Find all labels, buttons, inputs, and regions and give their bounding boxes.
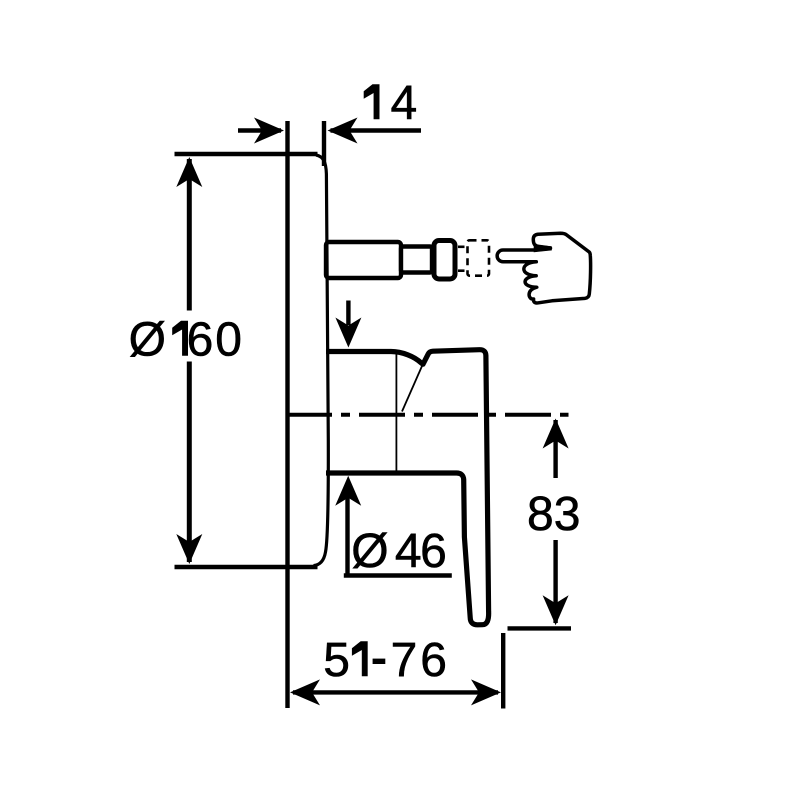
pointing hand notch between knuckle and finger bbox=[534, 244, 552, 252]
knob travel dash lower bbox=[458, 269, 465, 272]
svg-text:Ø: Ø bbox=[129, 314, 166, 367]
arrow above cartridge bbox=[346, 301, 350, 326]
plate front face bbox=[314, 155, 329, 566]
dim 51-76: text hyphen bbox=[373, 659, 386, 664]
dim 14: text digit 1 bbox=[364, 85, 379, 120]
handle parting thin line bbox=[402, 364, 423, 412]
svg-text:6: 6 bbox=[420, 525, 447, 578]
dim 14: right arrowhead bbox=[328, 118, 358, 144]
knob travel dash upper bbox=[458, 246, 465, 249]
diverter pull knob bbox=[434, 241, 455, 280]
dim Ø160: dimension line lower segment bbox=[187, 362, 192, 563]
dim 51-76: right arrowhead bbox=[471, 679, 501, 705]
wall plate rear face / shared extension line bbox=[285, 121, 289, 708]
dim 51-76: text digit 1 bbox=[352, 642, 367, 677]
dim 51-76: right extension line bbox=[501, 633, 505, 709]
dim 14: right extension line bbox=[322, 121, 326, 166]
svg-text:Ø: Ø bbox=[351, 525, 388, 578]
dim Ø160: text digit 1 bbox=[173, 321, 188, 356]
svg-text:4: 4 bbox=[395, 525, 422, 578]
cartridge body and lever handle outline bbox=[326, 350, 489, 625]
dim 51-76: shaft bbox=[293, 690, 498, 694]
centerline dash-dot bbox=[286, 413, 569, 417]
svg-text:5: 5 bbox=[323, 634, 350, 687]
dim 14: right arrow shaft bbox=[331, 128, 422, 132]
knob pulled-out position dashed outline bbox=[468, 240, 490, 275]
plate top edge and Ø160 top extension line bbox=[175, 152, 318, 156]
dim 83: bottom extension line bbox=[508, 626, 572, 630]
svg-text:4: 4 bbox=[391, 77, 418, 130]
dim 83: down arrowhead bbox=[543, 595, 569, 625]
pointing hand icon bbox=[497, 233, 590, 303]
diverter stem wide section bbox=[326, 242, 401, 278]
dim 83: upper shaft bbox=[553, 420, 557, 478]
cartridge front edge thin line bbox=[395, 354, 397, 472]
dim 14: left arrowhead bbox=[254, 118, 284, 144]
dim Ø160: bottom arrowhead bbox=[176, 534, 202, 564]
dim Ø46: underline bbox=[344, 573, 452, 577]
dim 51-76: left arrowhead bbox=[290, 679, 320, 705]
dim 83: up arrowhead bbox=[543, 419, 569, 449]
dim Ø46: up arrowhead bbox=[335, 476, 361, 506]
dim Ø160: top arrowhead bbox=[176, 157, 202, 187]
diverter stem neck bbox=[401, 247, 432, 273]
dim Ø160: dimension line upper segment bbox=[187, 159, 192, 311]
dim 14: left arrow shaft bbox=[238, 128, 281, 132]
svg-text:60: 60 bbox=[187, 314, 244, 367]
dim Ø46: leader vertical line bbox=[345, 490, 349, 576]
dim 83: lower shaft bbox=[553, 540, 557, 623]
svg-text:76: 76 bbox=[391, 634, 450, 687]
plate bottom edge and Ø160 bottom extension line bbox=[175, 565, 318, 569]
svg-text:83: 83 bbox=[527, 488, 580, 541]
